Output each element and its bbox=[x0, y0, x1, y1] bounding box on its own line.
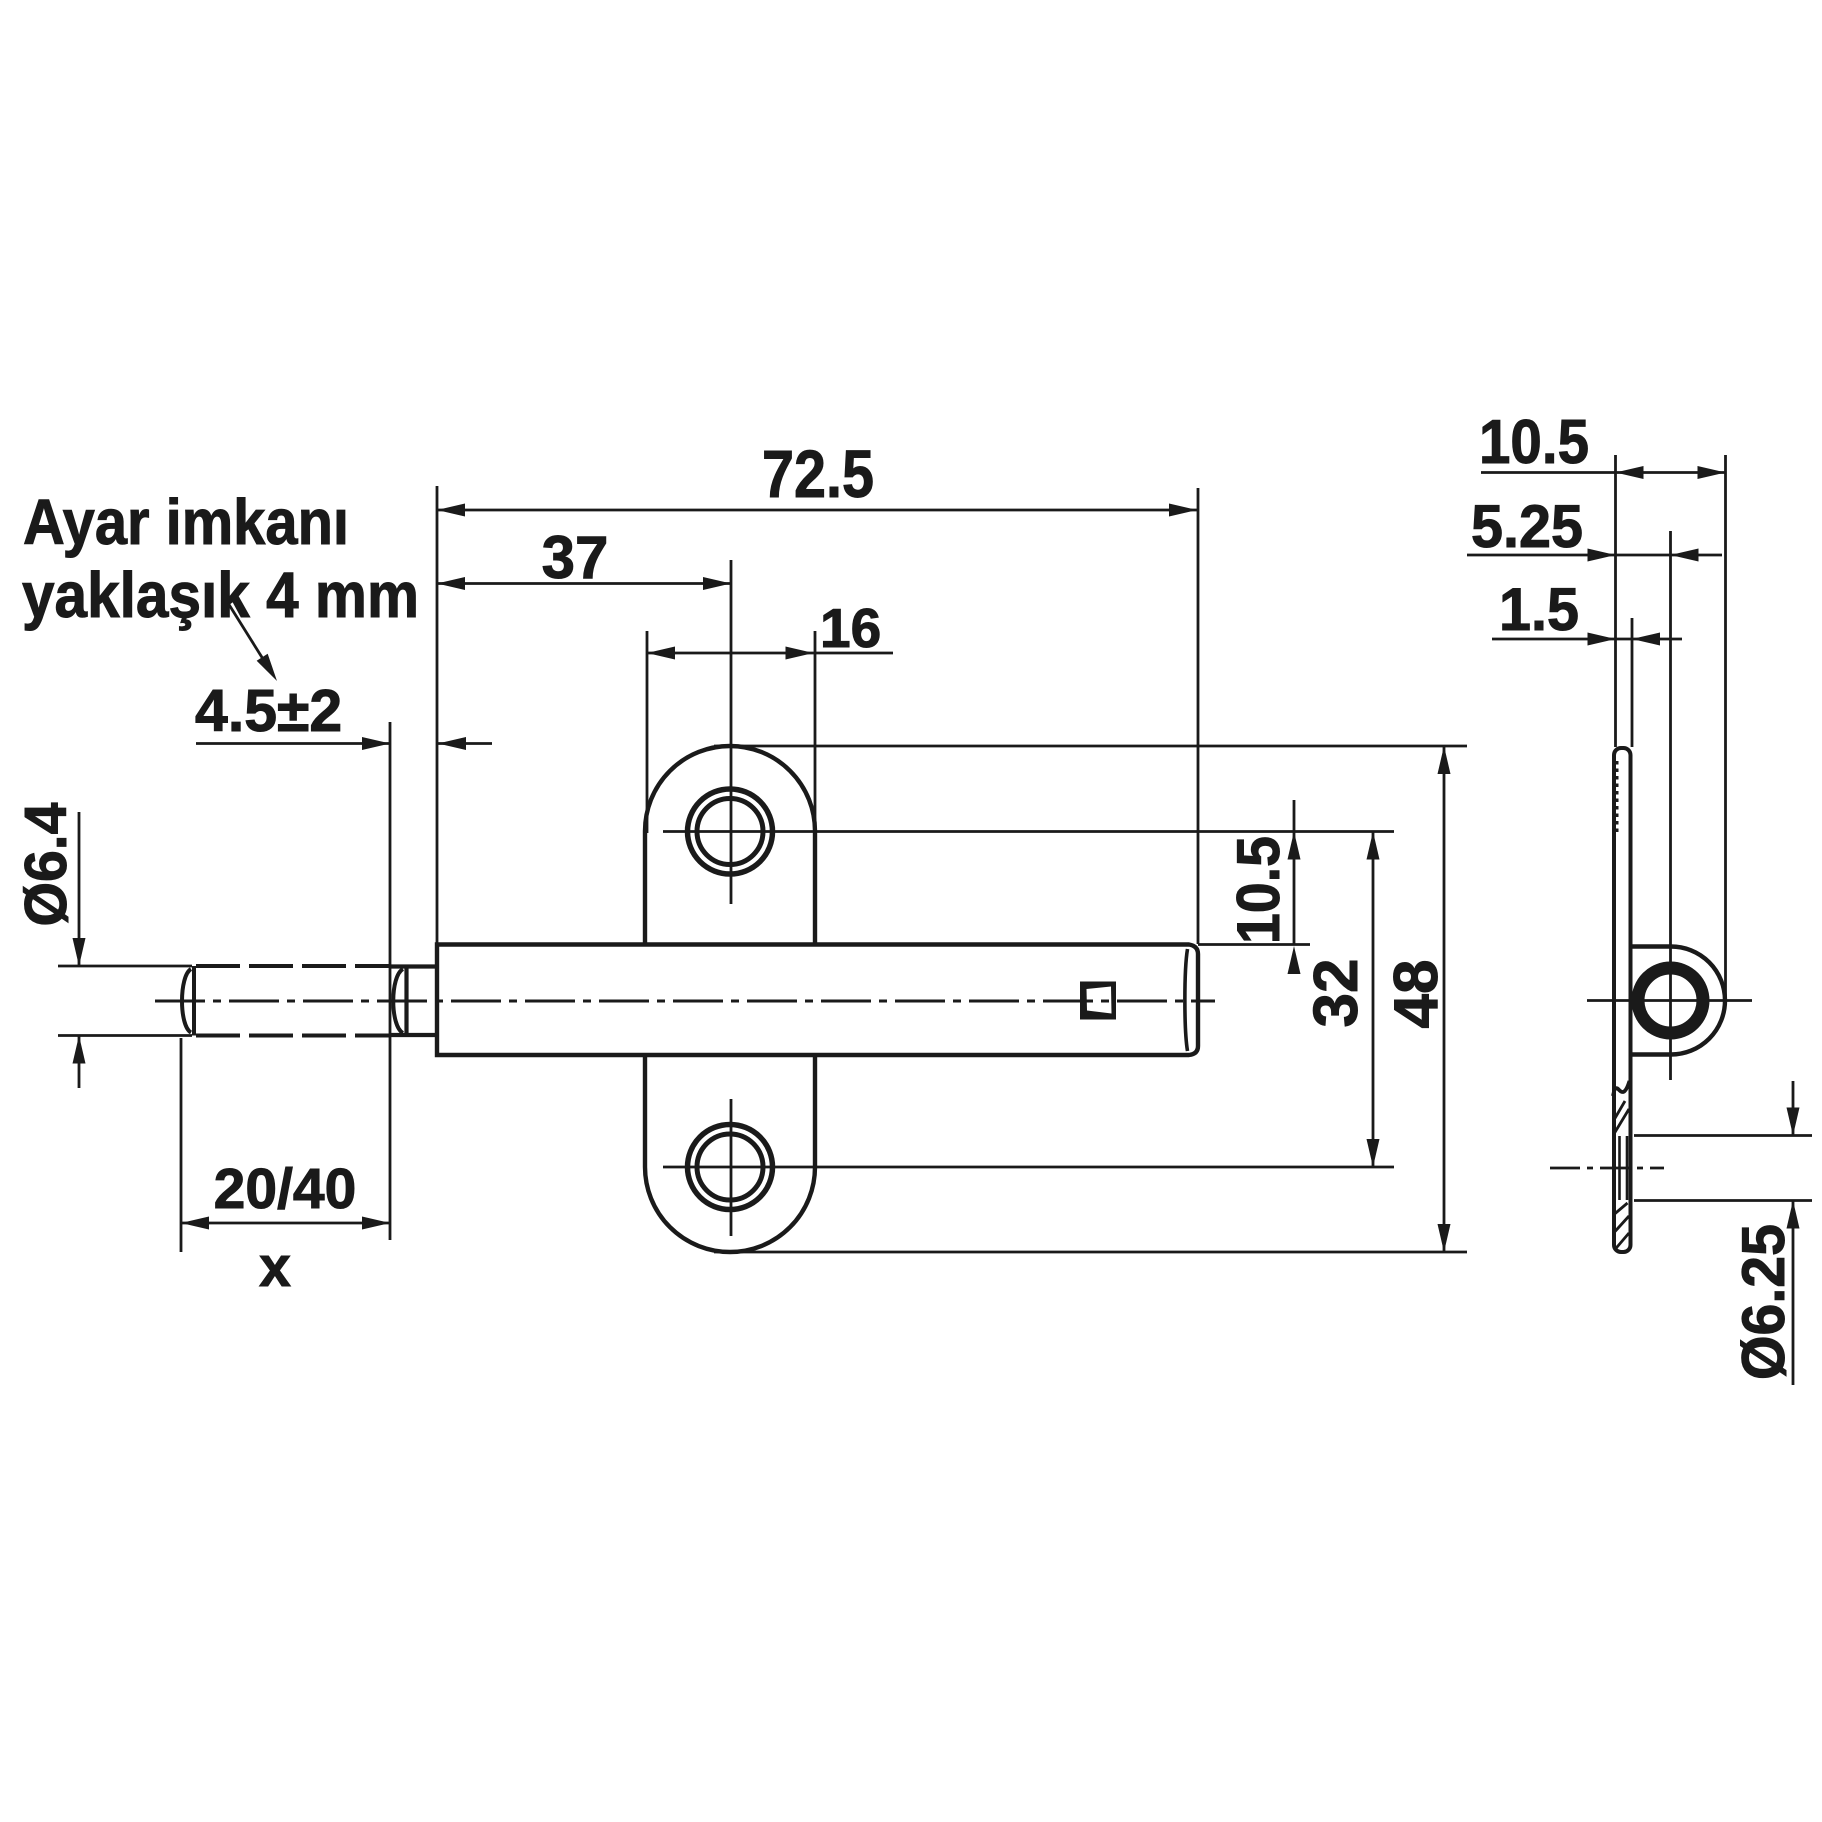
extension line plate left (16) bbox=[646, 631, 649, 833]
crosshair lower hole horizontal / extension bbox=[663, 1166, 1394, 1169]
upper screw hole bbox=[688, 789, 773, 874]
svg-text:Ø6.25: Ø6.25 bbox=[1730, 1224, 1797, 1380]
extension plate right face bbox=[1631, 618, 1634, 747]
svg-text:10.5: 10.5 bbox=[1225, 836, 1292, 944]
extension line pin top (dia 6.4) bbox=[58, 965, 192, 968]
dimension Ø6.4 bbox=[78, 812, 81, 966]
pin collar at body bbox=[389, 967, 437, 1036]
svg-text:x: x bbox=[259, 1235, 291, 1299]
dimension 10.5 (front right) bbox=[1293, 800, 1296, 945]
dimension 48 bbox=[1443, 746, 1446, 1252]
dimension 5.25 bbox=[1467, 554, 1722, 557]
svg-text:48: 48 bbox=[1382, 960, 1451, 1029]
break squiggle bbox=[1613, 1081, 1630, 1096]
extension knob right tangent bbox=[1724, 455, 1727, 1000]
mounting plate lower lobe bbox=[645, 1055, 815, 1252]
svg-text:16: 16 bbox=[820, 597, 881, 659]
dimension 1.5 bbox=[1492, 638, 1682, 641]
mounting plate upper lobe bbox=[645, 746, 815, 945]
dimension 10.5 (side) bbox=[1481, 471, 1726, 474]
dimension 37 bbox=[437, 582, 731, 585]
body centerline (dash-dot) bbox=[155, 1000, 1215, 1003]
side hole centerline (dash-dot) bbox=[1550, 1167, 1664, 1170]
extension line plate top tangent bbox=[714, 745, 1467, 748]
extension plate left face bbox=[1614, 455, 1617, 747]
adjustment square detail bbox=[1080, 982, 1116, 1020]
pin tip cap bbox=[192, 966, 196, 1036]
dimension 4.5±2 bbox=[196, 742, 390, 745]
svg-text:20/40: 20/40 bbox=[214, 1157, 357, 1221]
dimension 72.5 bbox=[437, 509, 1197, 512]
side plate outline bbox=[1614, 748, 1631, 1252]
dimension 20/40 bbox=[181, 1222, 390, 1225]
extension line pin bottom (dia 6.4) bbox=[58, 1034, 192, 1037]
dimension 32 bbox=[1372, 832, 1375, 1168]
screw hole walls (section) bbox=[1620, 1136, 1628, 1200]
svg-text:4.5±2: 4.5±2 bbox=[195, 678, 342, 744]
hatch below hole bbox=[1615, 1203, 1630, 1250]
extension line pin collar base bbox=[389, 722, 392, 1240]
extension line body left edge bbox=[436, 486, 439, 944]
side knob block bbox=[1632, 947, 1725, 1055]
side knob ring bbox=[1638, 968, 1703, 1033]
knob centerline bbox=[1587, 999, 1752, 1002]
latch body outline bbox=[437, 945, 1198, 1056]
extension line plate bottom tangent bbox=[714, 1251, 1467, 1254]
dimension Ø6.25 bbox=[1792, 1081, 1795, 1136]
svg-text:72.5: 72.5 bbox=[762, 437, 874, 512]
extension knob center vertical bbox=[1669, 531, 1672, 1080]
svg-text:Ø6.4: Ø6.4 bbox=[13, 802, 79, 926]
extension line pin tip bbox=[180, 1038, 183, 1252]
svg-text:10.5: 10.5 bbox=[1479, 408, 1589, 477]
leader arrow bbox=[228, 603, 263, 659]
crosshair upper hole vertical bbox=[730, 560, 733, 904]
svg-text:5.25: 5.25 bbox=[1471, 493, 1583, 560]
svg-text:Ayar imkanı: Ayar imkanı bbox=[23, 486, 349, 558]
crosshair lower hole vertical bbox=[730, 1099, 733, 1236]
hidden dotted line in plate bbox=[1616, 761, 1619, 833]
crosshair upper hole horizontal / extension bbox=[663, 830, 1394, 833]
hatch above hole bbox=[1615, 1101, 1630, 1133]
svg-text:37: 37 bbox=[542, 524, 609, 591]
extension line body right edge bbox=[1197, 488, 1200, 944]
svg-text:yaklaşık 4 mm: yaklaşık 4 mm bbox=[22, 559, 419, 631]
dimension 16 bbox=[647, 652, 893, 655]
svg-text:32: 32 bbox=[1302, 959, 1371, 1028]
lower screw hole bbox=[688, 1125, 773, 1210]
extension line body top to right bbox=[1198, 943, 1310, 946]
latch body end cap inner line bbox=[1185, 949, 1188, 1051]
svg-text:1.5: 1.5 bbox=[1499, 576, 1579, 643]
extension line plate right (16) bbox=[814, 631, 817, 836]
pin hidden outline top (dashed) bbox=[196, 964, 390, 968]
pin hidden outline bottom (dashed) bbox=[196, 1034, 390, 1038]
